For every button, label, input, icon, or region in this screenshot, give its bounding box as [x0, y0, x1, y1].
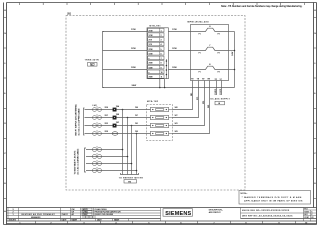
svg-text:JB1: JB1	[67, 13, 72, 16]
svg-text:1C X 4C x 2.5 COPPER CABLE: 1C X 4C x 2.5 COPPER CABLE	[77, 108, 80, 136]
svg-text:3: 3	[161, 40, 162, 42]
svg-text:REMARKS: REMARKS	[31, 216, 41, 219]
PT row 2 wire	[85, 117, 151, 119]
svg-text:NAME: NAME	[72, 219, 78, 222]
fuse unit row 4 terminal dots	[152, 133, 167, 134]
box JB dc supply	[215, 101, 225, 105]
wire TB1 to MPM B phase	[168, 69, 190, 71]
svg-text:1/1W: 1/1W	[149, 35, 153, 37]
fuse unit row 1 terminal dots	[152, 109, 167, 110]
future PT row 2 wire	[86, 156, 128, 158]
svg-text:7: 7	[161, 58, 162, 60]
svg-text:2/3W: 2/3W	[149, 63, 153, 65]
terminal cell 5	[148, 47, 164, 51]
PT row 2 link circles	[93, 114, 102, 119]
svg-text:REVISED AS PER COMMENT: REVISED AS PER COMMENT	[22, 213, 56, 216]
svg-text:3B1: 3B1	[191, 93, 193, 96]
terminal cell 3	[148, 38, 164, 42]
junction dot future row 1	[122, 149, 124, 151]
svg-text:BUS PT SUPPLY 110V (METERING): BUS PT SUPPLY 110V (METERING)	[75, 104, 77, 136]
tap vertical row3 to meter	[131, 126, 133, 175]
PT row 4 wire	[85, 133, 151, 135]
PT row 3 wire	[85, 125, 151, 127]
tap vertical row4 to meter	[136, 134, 138, 175]
svg-text:1/2W: 1/2W	[172, 48, 177, 50]
approval table texts	[83, 208, 121, 216]
wire MPM pin down to PT row at y=125.5	[173, 81, 205, 126]
fuse unit row 1	[151, 107, 173, 111]
wire CT R to return bus	[229, 31, 235, 33]
future PT row 3 wire	[86, 163, 132, 165]
meter MPM (ELM) 4X0 body	[191, 25, 229, 81]
box EM	[124, 180, 137, 183]
wire TB1 to MPM R phase	[168, 31, 190, 33]
wire CT neutral return	[103, 87, 235, 89]
date name cells in header strip	[96, 219, 129, 222]
SIEMENS logo box	[163, 209, 193, 217]
CT return bus right of MPM	[234, 32, 236, 88]
revision row codes col	[72, 209, 75, 216]
svg-text:SIEMENS: SIEMENS	[165, 211, 191, 217]
svg-text:DATE: DATE	[62, 219, 68, 222]
PT row 1 link circles	[93, 106, 102, 111]
wire MPM pin down to PT row at y=109.5	[173, 81, 193, 110]
fuse unit row 2	[151, 115, 173, 119]
svg-text:1: 1	[161, 30, 162, 32]
box CP	[88, 63, 98, 67]
fuse unit row 3	[151, 123, 173, 127]
drop wire TB1 left to neutral	[159, 79, 161, 88]
drop wire TB1 right to neutral	[164, 79, 166, 88]
fuse block MTB-TB2 boundary	[147, 105, 173, 141]
future PT row 4 link circles	[93, 167, 102, 172]
junction dot row 1 tap	[122, 109, 124, 111]
svg-text:3/N: 3/N	[175, 131, 179, 133]
svg-text:1/2W: 1/2W	[149, 53, 153, 55]
wire MPM pin down to PT row at y=117.5	[173, 81, 199, 118]
svg-text:1/4W: 1/4W	[232, 52, 234, 56]
fuse unit row 3 terminal dots	[152, 125, 167, 126]
svg-text:G: G	[4, 33, 6, 35]
wire DC minus from MPM	[221, 81, 223, 96]
reference numbers text	[242, 209, 293, 218]
PT row 4 link circles	[93, 130, 102, 135]
junction dot future row 3	[131, 163, 133, 165]
terminal cell 7	[148, 56, 164, 60]
ferrule labels DC wires	[215, 88, 222, 95]
svg-text:P1: P1	[199, 34, 201, 36]
wire DC plus from MPM	[216, 81, 218, 96]
svg-text:2/1W: 2/1W	[149, 30, 153, 32]
description block	[209, 209, 223, 214]
svg-text:DATE: DATE	[97, 219, 102, 222]
zone letters left	[4, 10, 6, 213]
future PT row 1 wire	[86, 149, 123, 151]
terminal cell 11	[148, 75, 164, 79]
svg-text:CONT: CONT	[304, 217, 309, 219]
svg-text:P1: P1	[199, 53, 201, 55]
wire CT lead R phase	[103, 31, 148, 33]
CT element Y inside MPM	[191, 47, 229, 50]
svg-text:1/1W: 1/1W	[172, 29, 177, 31]
terminal cell 9	[148, 65, 164, 69]
svg-text:DC AUX SUPPLY: DC AUX SUPPLY	[211, 97, 231, 100]
jumper bus on MTB-TB1	[165, 59, 167, 79]
junction dot row 4 tap	[136, 133, 138, 135]
svg-text:8: 8	[161, 63, 162, 65]
terminal cell 10	[148, 70, 164, 74]
bottom zone numbers	[19, 222, 308, 224]
svg-text:2/D: 2/D	[135, 123, 139, 125]
svg-text:J11/1: J11/1	[220, 88, 222, 95]
svg-text:3D1: 3D1	[203, 101, 205, 104]
svg-text:1/3W: 1/3W	[149, 67, 153, 69]
svg-text:G: G	[314, 33, 316, 35]
MPM bottom pin labels	[191, 79, 222, 81]
svg-text:2: 2	[161, 35, 162, 37]
svg-text:PHOTRA PQ/7/08 DARVES Q/R: PHOTRA PQ/7/08 DARVES Q/R	[95, 210, 122, 213]
svg-text:(1C X 4C x 2.5 ARMD CABLE): (1C X 4C x 2.5 ARMD CABLE)	[76, 148, 79, 174]
svg-text:2/1W: 2/1W	[131, 29, 136, 31]
svg-text:APPLICABLE ONLY IN 1W PANEL OF: APPLICABLE ONLY IN 1W PANEL OF 66KV S/S	[244, 199, 303, 202]
source bracket CT leads	[103, 32, 105, 88]
fuse unit row 2 terminal dots	[152, 117, 167, 118]
svg-text:4: 4	[161, 44, 162, 46]
wire CT B to return bus	[229, 69, 235, 71]
svg-text:P2: P2	[218, 72, 220, 74]
junction dots on neutral wire	[159, 87, 165, 89]
svg-text:P2: P2	[218, 34, 220, 36]
svg-text:P1: P1	[199, 72, 201, 74]
svg-text:MTB-TB2: MTB-TB2	[147, 101, 159, 103]
svg-text:MPM (ELM) 4X0: MPM (ELM) 4X0	[188, 22, 210, 24]
bracket PT supply group	[84, 108, 85, 135]
svg-text:* MARKED TERMINALS O/G DUCT &: * MARKED TERMINALS O/G DUCT & M ARE	[242, 196, 302, 199]
svg-text:DURGY CIVE DESIGN: DURGY CIVE DESIGN	[95, 214, 114, 216]
PLD mini table texts	[304, 209, 314, 219]
wire MPM pin down to PT row at y=133.5	[173, 81, 210, 134]
wire CT Y to return bus	[229, 50, 235, 52]
PT row 3 link circles	[93, 122, 102, 127]
neutral link row 4	[112, 132, 118, 136]
svg-text:2/4W: 2/4W	[132, 85, 137, 87]
junction dot row 3 tap	[131, 125, 133, 127]
divider desc/ref	[240, 208, 242, 219]
svg-text:F 4/2: F 4/2	[93, 105, 97, 107]
future PT row 3 link circles	[93, 160, 102, 165]
svg-text:TO ENERGY METER: TO ENERGY METER	[119, 177, 144, 179]
svg-text:TRNS 30TR: TRNS 30TR	[85, 60, 100, 62]
tap vertical row1 to meter	[122, 110, 124, 175]
fuse unit row 4	[151, 131, 173, 135]
revision table grid	[7, 208, 161, 222]
svg-text:SHT: SHT	[304, 214, 307, 216]
svg-text:2/2W: 2/2W	[149, 49, 153, 51]
junction dot future row 2	[127, 156, 129, 158]
svg-text:2/C: 2/C	[135, 115, 139, 117]
zone letters right	[314, 10, 316, 185]
junction dot row 2 tap	[127, 117, 129, 119]
svg-text:3C1: 3C1	[197, 97, 199, 100]
terminal cell 4	[148, 42, 164, 46]
CT element R labels	[199, 26, 220, 35]
svg-text:1/3W: 1/3W	[172, 67, 177, 69]
terminal cell 1	[148, 28, 164, 32]
revision numbers	[12, 209, 14, 216]
CT element B inside MPM	[191, 66, 229, 69]
zone ticks top edge	[20, 3, 305, 6]
svg-text:2/3W: 2/3W	[131, 67, 136, 69]
svg-text:2/2W: 2/2W	[131, 48, 136, 50]
terminal cell 2	[148, 33, 164, 37]
future PT row 2 link circles	[93, 153, 102, 158]
svg-text:J10/1: J10/1	[215, 88, 217, 95]
svg-text:3/D: 3/D	[175, 123, 179, 125]
svg-text:2/4W: 2/4W	[149, 77, 153, 79]
zone ticks left edge	[4, 18, 7, 199]
panel boundary JB1 (dashed)	[66, 16, 245, 191]
fuse holder row 1	[113, 105, 120, 112]
future PT row 4 wire	[86, 170, 137, 172]
svg-text:CLEAR TRNSL: CLEAR TRNSL	[95, 208, 107, 211]
svg-text:21/4/17: 21/4/17	[62, 214, 68, 216]
svg-text:DRG REF NO:-XX-XXXXXX-XXXXX-XX: DRG REF NO:-XX-XXXXXX-XXXXX-XX-XXXX	[242, 216, 293, 218]
svg-text:P2: P2	[218, 53, 220, 55]
svg-text:NOTE:-: NOTE:-	[241, 193, 248, 195]
svg-text:3N1: 3N1	[208, 105, 210, 108]
CT element B labels	[199, 64, 220, 73]
svg-text:VALUE REF NO:-XXX/XX-XXXXXX-XX: VALUE REF NO:-XXX/XX-XXXXXX-XXXXX	[242, 209, 290, 212]
jumper junction dots	[166, 60, 168, 75]
energy meter bracket	[121, 173, 139, 175]
svg-text:TO 66KV SIDE PT JB (FUT): TO 66KV SIDE PT JB (FUT)	[74, 150, 76, 174]
svg-text:MTB-TB1: MTB-TB1	[150, 25, 162, 27]
CT element Y labels	[199, 45, 220, 54]
svg-text:DESCRIPTION:-: DESCRIPTION:-	[209, 209, 223, 211]
fuse holder row 2	[113, 114, 120, 120]
wire CT lead Y phase	[103, 50, 148, 52]
svg-text:APPD: APPD	[83, 208, 89, 211]
terminal block MTB-TB1 body	[147, 28, 168, 79]
svg-text:6: 6	[161, 53, 162, 55]
svg-text:PREP: PREP	[83, 214, 89, 216]
bracket future PT group	[85, 148, 87, 172]
bottom zone strip ticks	[36, 221, 296, 224]
svg-text:10: 10	[161, 72, 163, 74]
svg-text:NAME: NAME	[114, 219, 120, 222]
title block horizontal rules	[7, 208, 317, 224]
svg-text:ISSUES: ISSUES	[9, 220, 17, 222]
svg-text:Note:- TB Numbers and Ferrule: Note:- TB Numbers and Ferrule Numbers ma…	[221, 5, 303, 8]
note box bottom right	[239, 191, 311, 205]
PLD mini table	[304, 210, 317, 222]
junction dots on return bus	[234, 50, 236, 71]
svg-text:5: 5	[161, 49, 162, 51]
future PT row 1 link circles	[93, 146, 102, 151]
svg-text:APB CIRCUIT: APB CIRCUIT	[209, 211, 222, 214]
wire TB1 to MPM Y phase	[168, 50, 190, 52]
tap vertical row2 to meter	[127, 118, 129, 175]
wire CT lead B phase	[103, 69, 148, 71]
approval table	[82, 208, 96, 218]
svg-text:11: 11	[161, 77, 163, 79]
svg-text:3/C: 3/C	[175, 115, 179, 117]
junction dot future row 4	[136, 170, 138, 172]
reference numbers block	[241, 208, 304, 222]
PT row 1 wire	[85, 109, 151, 111]
terminal cell 8	[148, 61, 164, 65]
svg-text:2/N: 2/N	[135, 131, 139, 133]
zone ticks right edge	[314, 18, 317, 199]
svg-text:9: 9	[161, 67, 162, 69]
fuse holder row 3	[113, 122, 120, 128]
terminal cell 6	[148, 51, 164, 55]
CT element R inside MPM	[191, 28, 229, 31]
